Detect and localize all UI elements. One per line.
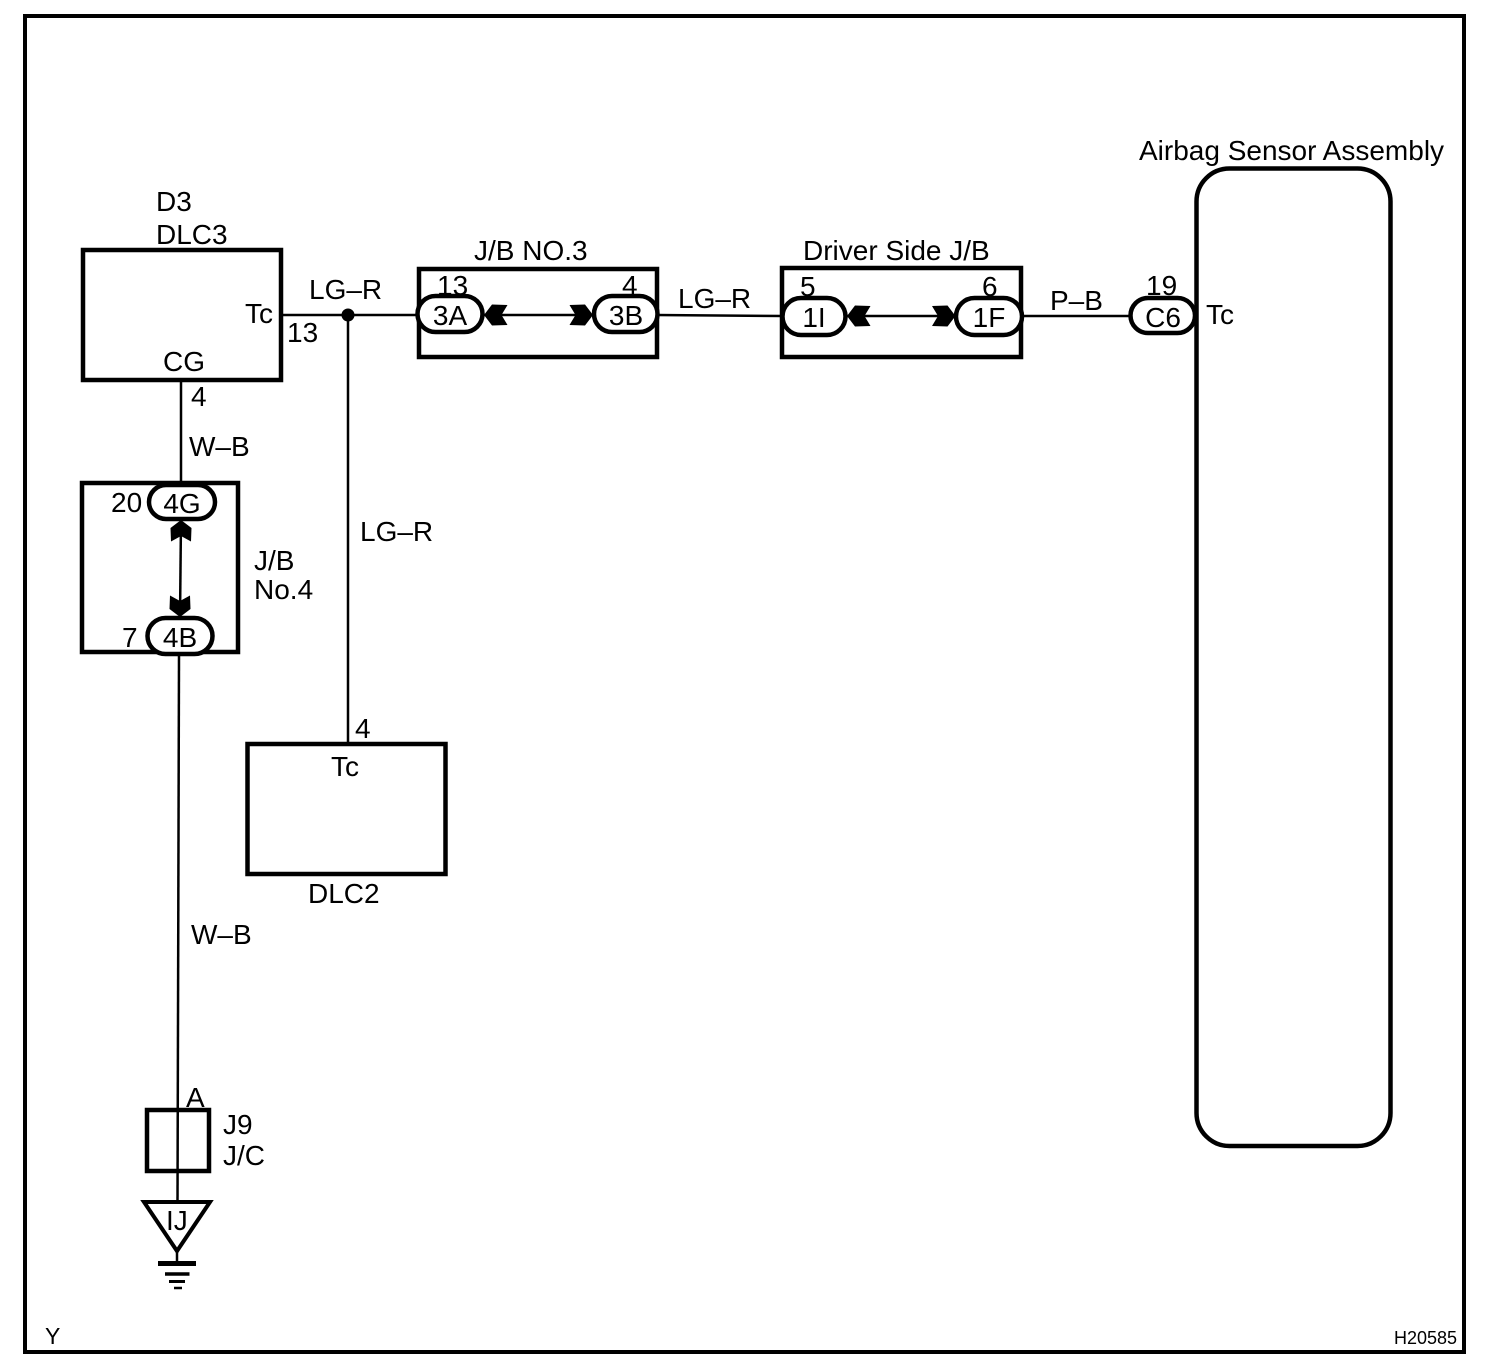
svg-text:LG–R: LG–R xyxy=(309,274,382,305)
svg-text:W–B: W–B xyxy=(191,919,252,950)
svg-text:Driver Side J/B: Driver Side J/B xyxy=(803,235,990,266)
arrow into 3A xyxy=(484,305,508,326)
svg-text:4: 4 xyxy=(355,713,371,744)
junction block Driver Side J/B box xyxy=(782,268,1021,357)
arrow into 4G xyxy=(171,520,192,542)
junction connector J9 J/C square xyxy=(147,1110,209,1171)
wire LG-R from 3B to 1I xyxy=(656,315,784,316)
svg-text:IJ: IJ xyxy=(166,1205,188,1236)
wire W-B from 4B down through J9 to ground triangle xyxy=(178,654,180,1203)
ground point IJ triangle xyxy=(144,1202,210,1251)
svg-text:H20585: H20585 xyxy=(1394,1328,1457,1348)
wire Tc-13 horizontal from DLC3 to junction and 3A xyxy=(281,314,419,317)
wire W-B from DLC3 CG pin 4 down to 4G xyxy=(180,381,183,487)
arrow into 1F xyxy=(932,306,956,327)
svg-text:1I: 1I xyxy=(802,302,825,333)
svg-text:C6: C6 xyxy=(1145,302,1181,333)
svg-text:Tc: Tc xyxy=(331,751,359,782)
connector 3A oval xyxy=(418,296,483,332)
svg-text:J9: J9 xyxy=(223,1109,253,1140)
connector 1F oval xyxy=(956,298,1022,335)
svg-text:W–B: W–B xyxy=(189,431,250,462)
svg-text:LG–R: LG–R xyxy=(360,516,433,547)
arrow into 4B xyxy=(170,596,191,618)
svg-text:4B: 4B xyxy=(163,622,197,653)
svg-text:1F: 1F xyxy=(973,302,1006,333)
svg-text:3A: 3A xyxy=(433,300,468,331)
connector 4B oval xyxy=(148,618,213,654)
svg-text:P–B: P–B xyxy=(1050,285,1103,316)
component Airbag Sensor Assembly outline xyxy=(1197,169,1391,1147)
connector 4G oval xyxy=(149,485,215,519)
svg-text:Airbag Sensor Assembly: Airbag Sensor Assembly xyxy=(1139,135,1444,166)
wire stub triangle apex to ground xyxy=(176,1251,179,1263)
arrow into 3B xyxy=(570,305,594,326)
svg-text:7: 7 xyxy=(122,622,138,653)
svg-text:LG–R: LG–R xyxy=(678,283,751,314)
svg-text:20: 20 xyxy=(111,487,142,518)
connector D3 DLC3 box xyxy=(83,250,281,380)
connector 3B oval xyxy=(594,296,658,332)
svg-text:13: 13 xyxy=(287,317,318,348)
connector C6 oval xyxy=(1131,298,1196,333)
connector DLC2 box xyxy=(248,744,446,874)
svg-text:4G: 4G xyxy=(163,488,200,519)
wire vertical LG-R from junction down to DLC2 xyxy=(347,315,350,746)
junction block J/B No.4 box xyxy=(82,483,238,652)
svg-text:J/B NO.3: J/B NO.3 xyxy=(474,235,588,266)
ground symbol xyxy=(158,1264,196,1289)
svg-text:No.4: No.4 xyxy=(254,574,313,605)
wire between 1I and 1F xyxy=(845,315,957,318)
svg-text:DLC2: DLC2 xyxy=(308,878,380,909)
arrow into 1I xyxy=(847,306,871,327)
wire P-B from 1F to C6 xyxy=(1021,315,1132,318)
svg-text:Y: Y xyxy=(45,1323,60,1349)
svg-text:3B: 3B xyxy=(609,300,643,331)
connector 1I oval xyxy=(783,298,846,335)
svg-text:CG: CG xyxy=(163,346,205,377)
wire inside J/B No.4 between 4G and 4B xyxy=(180,519,181,618)
svg-text:DLC3: DLC3 xyxy=(156,219,228,250)
svg-text:D3: D3 xyxy=(156,186,192,217)
wire between 3A and 3B xyxy=(482,314,595,317)
svg-text:Tc: Tc xyxy=(245,298,273,329)
svg-text:J/B: J/B xyxy=(254,545,294,576)
svg-text:Tc: Tc xyxy=(1206,299,1234,330)
junction block J/B NO.3 box xyxy=(419,269,657,357)
svg-text:J/C: J/C xyxy=(223,1140,265,1171)
node junction dot xyxy=(342,309,355,322)
svg-text:4: 4 xyxy=(191,381,207,412)
